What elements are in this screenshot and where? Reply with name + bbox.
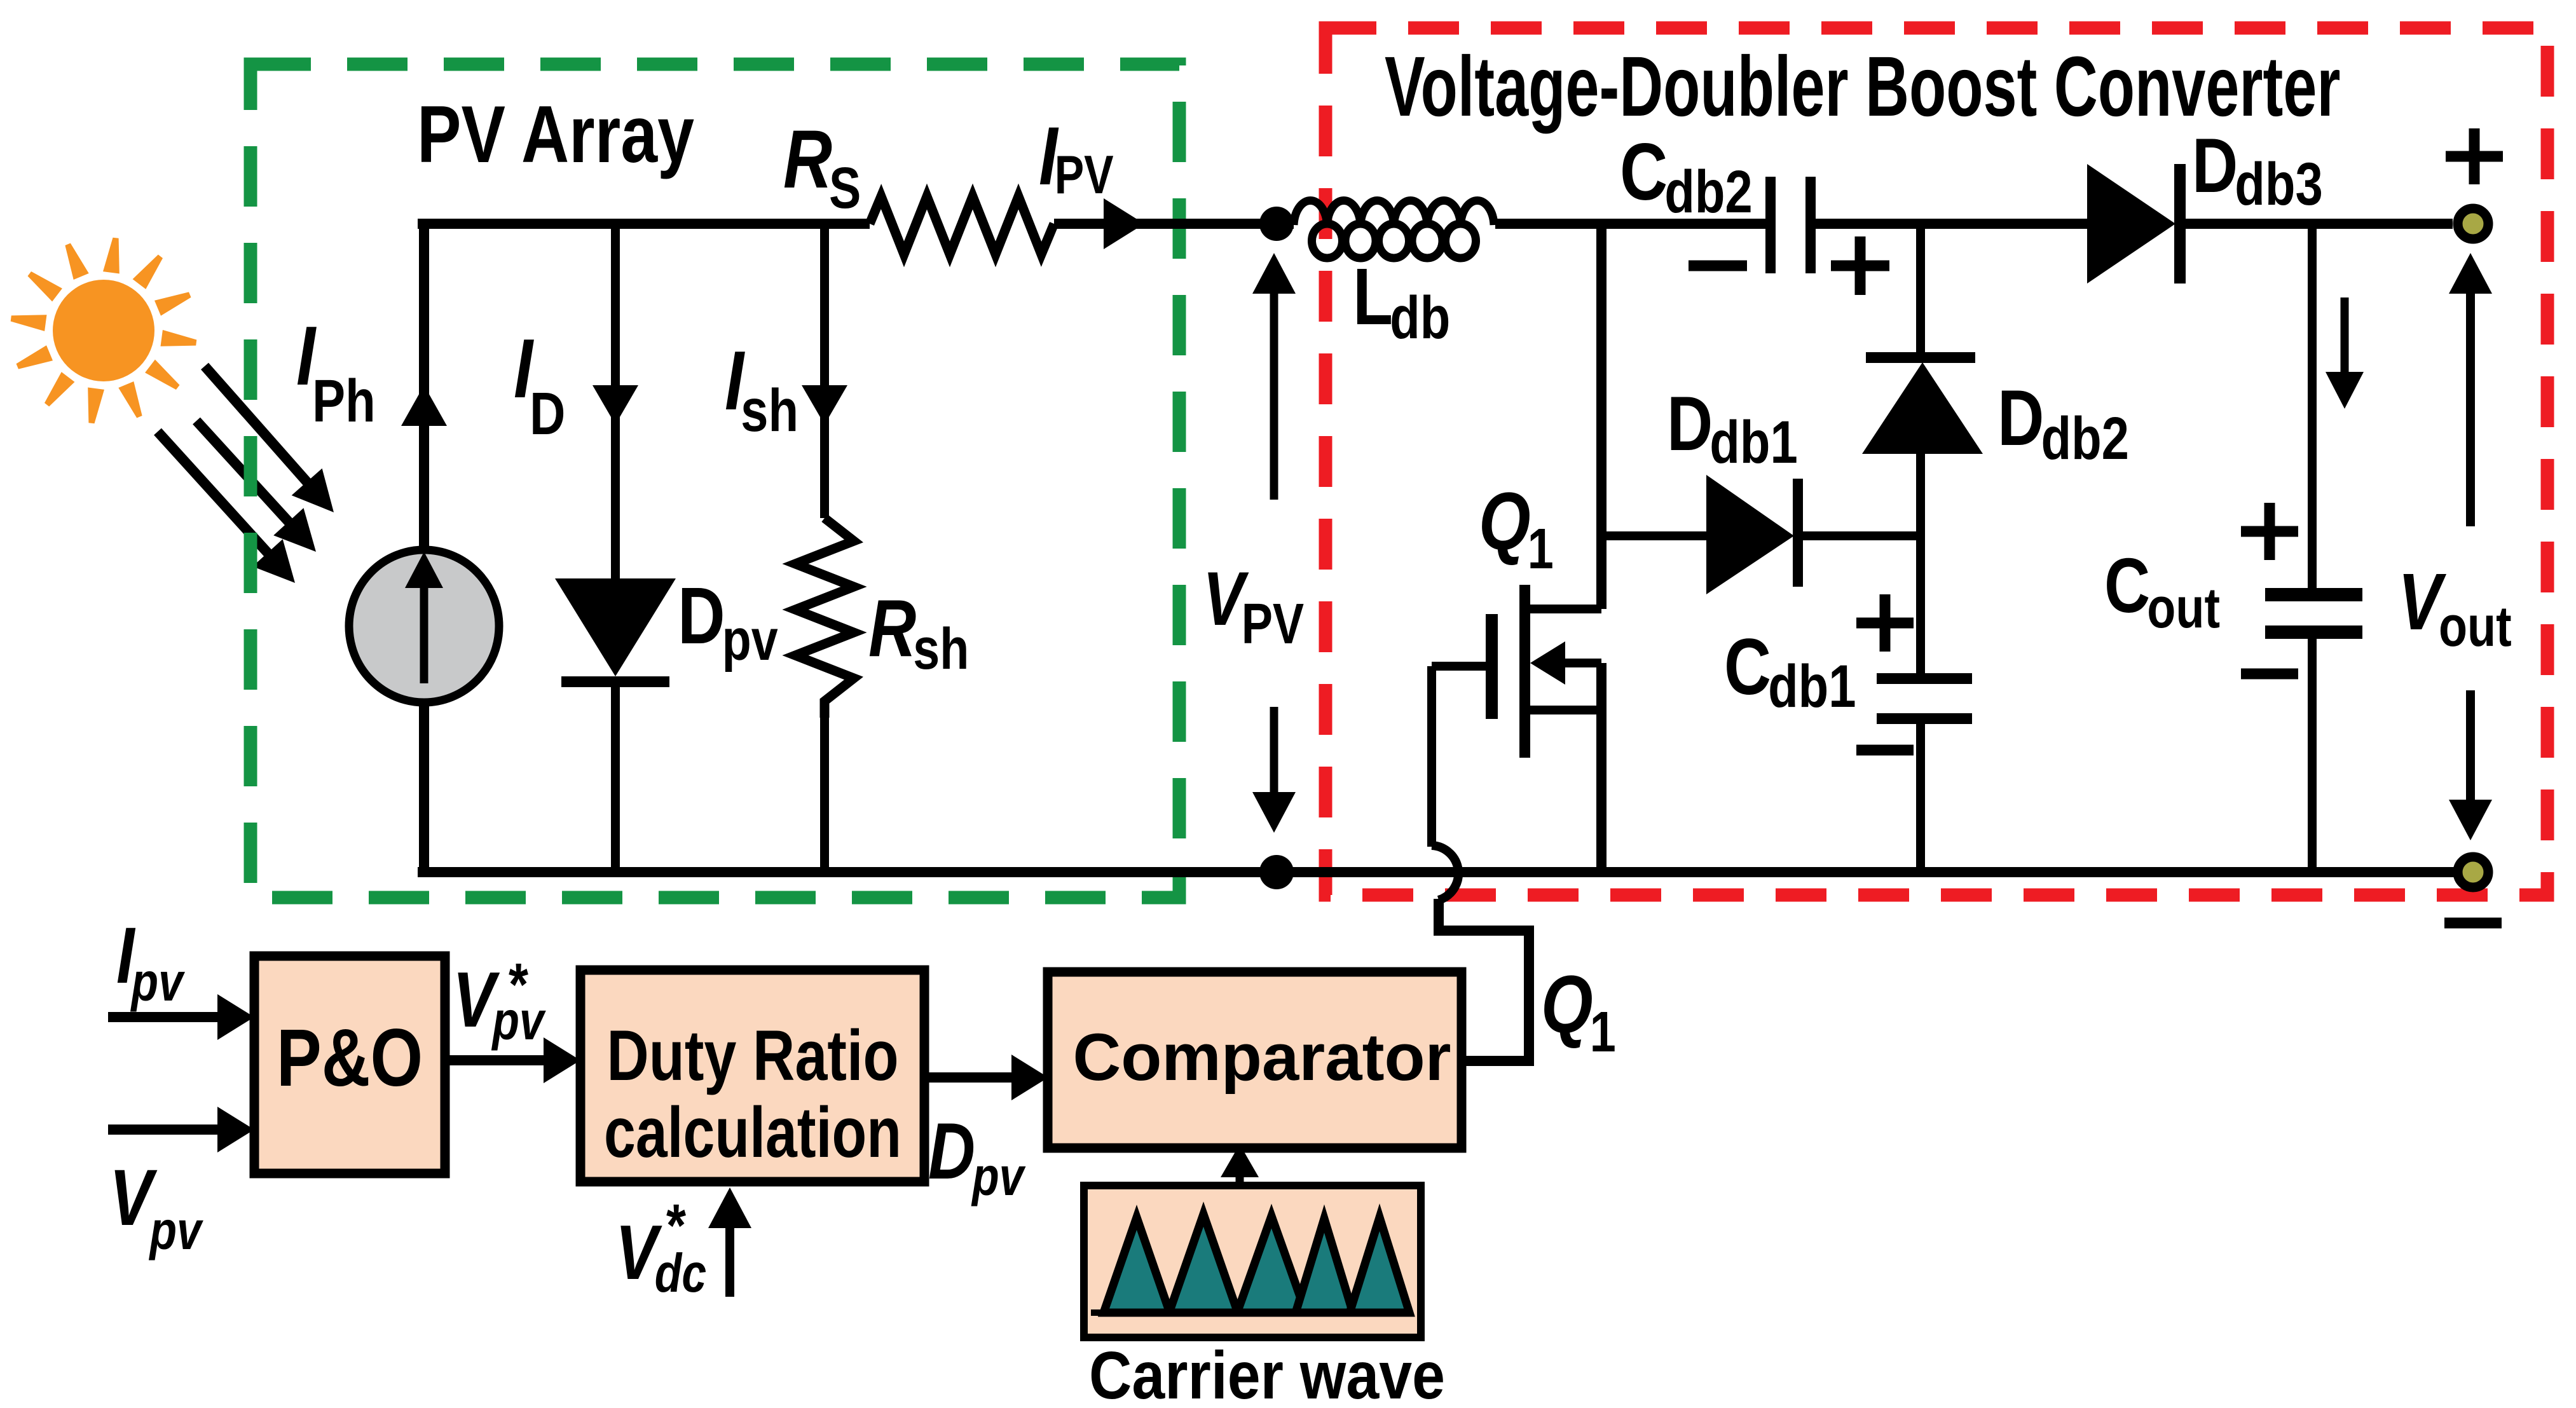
current source IPh bbox=[349, 550, 499, 702]
label: Carrier wave bbox=[1089, 1339, 1445, 1408]
label: C_db2 bbox=[1620, 126, 1753, 226]
wire: Rsh branch lower bbox=[820, 718, 829, 872]
block: Duty Ratio calculation bbox=[580, 970, 924, 1182]
node: load current down arrow bbox=[2341, 297, 2349, 376]
label: PV Array bbox=[417, 89, 694, 179]
resistor Rs bbox=[870, 196, 1054, 254]
wire: Duty Ratio to Comparator arrow bbox=[922, 1072, 1015, 1083]
diode D_db1 bbox=[1706, 475, 1794, 594]
label: D_db3 bbox=[2192, 122, 2323, 218]
wire: bus to Cout bbox=[2308, 224, 2317, 588]
inductor L_db bbox=[1294, 201, 1494, 258]
wire: gate drive vertical above bus bbox=[1427, 666, 1436, 847]
wire: Vpv input arrow bbox=[108, 1124, 221, 1135]
wire: P&O to Duty Ratio arrow bbox=[446, 1055, 547, 1065]
capacitor C_db2 bbox=[1765, 177, 1776, 273]
capacitor C_out bbox=[2265, 588, 2362, 601]
label: Cdb2 minus bbox=[1689, 261, 1747, 271]
wire: Rs to input node with IPV arrowhead bbox=[1054, 219, 1294, 229]
label: D_db1 bbox=[1667, 380, 1798, 476]
wire: Cout to bottom bus bbox=[2308, 639, 2317, 872]
wire: Ipv input arrow bbox=[108, 1012, 221, 1022]
wire: gate drive below bus to comparator bbox=[1439, 899, 1529, 1061]
diode D_db3 bbox=[2087, 164, 2175, 284]
label: I_pv input bbox=[116, 912, 185, 1012]
wire: Ddb1 anode lead bbox=[1601, 531, 1708, 540]
diode Dpv bbox=[555, 578, 676, 676]
block: carrier wave box bbox=[1084, 1186, 1421, 1337]
capacitor C_db1 bbox=[1877, 673, 1972, 684]
label: R_S bbox=[783, 113, 861, 221]
block: P&O bbox=[254, 956, 445, 1173]
wire: carrier to comparator arrow bbox=[1236, 1173, 1244, 1186]
label: Q1 at transistor bbox=[1479, 475, 1554, 581]
wire: Dpv branch lower bbox=[611, 676, 620, 872]
transistor Q1 (MOSFET) bbox=[1486, 585, 1601, 758]
node: output + terminal bbox=[2458, 208, 2488, 239]
label: V_PV bbox=[1203, 557, 1304, 656]
label: R_sh bbox=[868, 583, 969, 681]
wire: hop over bottom bus bbox=[1432, 845, 1458, 900]
svg-text:P&O: P&O bbox=[277, 1013, 423, 1104]
sun bbox=[11, 238, 197, 424]
wire: Cdb1 to bottom bus bbox=[1916, 724, 1925, 872]
irradiance arrow 3 bbox=[158, 432, 270, 555]
svg-text:calculation: calculation bbox=[604, 1093, 901, 1173]
label: V*_dc bbox=[615, 1209, 706, 1304]
wire: Dpv branch upper bbox=[611, 224, 620, 580]
node: Ish arrowhead bbox=[802, 385, 847, 425]
label: C_db1 bbox=[1724, 623, 1856, 720]
svg-text:*: * bbox=[509, 950, 529, 1018]
label: V*_pv bbox=[453, 955, 546, 1051]
resistor Rsh bbox=[795, 518, 854, 718]
label: output minus sign bbox=[2444, 918, 2502, 929]
wire: Cdb2 to Ddb3 bbox=[1816, 219, 2088, 229]
node: VPV down arrow bbox=[1270, 707, 1278, 796]
label: output plus sign bbox=[2446, 151, 2503, 162]
label: V_pv input bbox=[109, 1154, 203, 1261]
node: VPV bottom node bbox=[1259, 855, 1294, 889]
carrier wave triangles bbox=[1091, 1214, 1411, 1313]
node: Vout up arrow bbox=[2466, 290, 2475, 526]
block: Comparator bbox=[1048, 972, 1462, 1148]
node: VPV top node bbox=[1259, 207, 1294, 241]
wire: Ddb1 cathode lead bbox=[1803, 531, 1921, 540]
diode D_db2 bbox=[1866, 352, 1975, 363]
label: L_db bbox=[1353, 252, 1450, 351]
wire: Rsh branch upper bbox=[820, 224, 829, 518]
wire: photocurrent branch lower bbox=[419, 702, 429, 872]
label: I_PV bbox=[1039, 110, 1114, 205]
irradiance arrow 1 bbox=[205, 366, 308, 484]
wire: inductor to Cdb2 bbox=[1495, 219, 1765, 229]
wire: Q1 source to bottom bus bbox=[1596, 663, 1607, 872]
svg-text:*: * bbox=[666, 1191, 687, 1259]
label: D_pv bbox=[678, 571, 778, 672]
label: Cdb1 plus bbox=[1856, 618, 1914, 629]
node: Vout down arrow bbox=[2466, 690, 2475, 803]
wire: photocurrent branch upper bbox=[419, 224, 429, 552]
label: Cdb1 minus bbox=[1856, 745, 1914, 756]
green dashed box: PV Array boundary bbox=[250, 64, 1179, 898]
wire: bus to Ddb2 cathode bbox=[1916, 224, 1925, 353]
node: ID arrowhead bbox=[593, 385, 638, 425]
label: D_db2 bbox=[1997, 374, 2129, 472]
svg-text:Duty Ratio: Duty Ratio bbox=[606, 1015, 898, 1095]
node: VPV up arrow bbox=[1270, 290, 1278, 500]
wire: Ddb3 to output + terminal bbox=[2186, 219, 2453, 229]
label: Cout minus bbox=[2241, 669, 2298, 680]
label: Cdb2 plus bbox=[1831, 261, 1889, 271]
label: D_pv output bbox=[928, 1107, 1026, 1206]
svg-text:PV Array: PV Array bbox=[417, 89, 694, 179]
node: output - terminal bbox=[2458, 857, 2488, 887]
label: C_out bbox=[2104, 542, 2220, 640]
wire: top bus from PV corner to Rs bbox=[418, 219, 870, 229]
svg-text:Comparator: Comparator bbox=[1072, 1020, 1451, 1095]
wire: Vdc* input arrow bbox=[725, 1224, 734, 1297]
wire: gate lead bbox=[1432, 662, 1486, 671]
label: Voltage-Doubler Boost Converter bbox=[1385, 39, 2340, 134]
label: Cout plus bbox=[2241, 526, 2298, 537]
red dashed box: Voltage-Doubler Boost Converter boundary bbox=[1326, 28, 2547, 895]
label: Q1 at gate wire bbox=[1541, 959, 1616, 1064]
wire: Ddb2 anode to Cdb1 bbox=[1916, 454, 1925, 674]
label: V_out bbox=[2398, 557, 2512, 658]
svg-text:Carrier wave: Carrier wave bbox=[1089, 1339, 1445, 1408]
irradiance arrow 2 bbox=[196, 421, 291, 524]
label: I_D bbox=[514, 322, 565, 448]
label: I_sh bbox=[725, 334, 798, 444]
wire: bottom bus bbox=[418, 867, 2470, 877]
label: I_Ph bbox=[296, 309, 376, 435]
node: IPh arrowhead bbox=[401, 385, 447, 426]
svg-text:Voltage-Doubler Boost Converte: Voltage-Doubler Boost Converter bbox=[1385, 39, 2340, 134]
wire: node to Q1 drain / Ddb1 anode bbox=[1596, 224, 1607, 609]
